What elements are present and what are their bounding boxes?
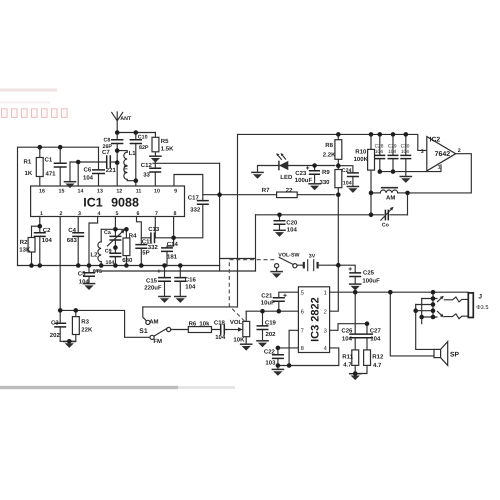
svg-text:10k: 10k (199, 321, 210, 328)
junction (173.6,237.8) (171, 236, 176, 241)
potentiometer VOL (227, 329, 238, 331)
wire C3/R3 bottom to ground (60, 340, 76, 342)
junction (367,323.7) (365, 321, 370, 326)
junction (407.5,192.9) (405, 191, 410, 196)
svg-text:104: 104 (375, 149, 383, 155)
junction (135.8,180.7) (134, 178, 139, 183)
wire pin4 (89, 217, 98, 267)
svg-text:104: 104 (185, 284, 196, 291)
wire speaker bottom feed (390, 292, 434, 356)
wire line B y=271 (96, 270, 256, 272)
wire pin4 to ground node (278, 348, 339, 366)
svg-text:C18: C18 (214, 320, 226, 327)
svg-text:C14: C14 (167, 241, 179, 248)
svg-text:S1: S1 (139, 328, 148, 335)
junction (393,171.6) (391, 169, 396, 174)
capacitor C29 (392, 134, 394, 171)
ground (251, 172, 264, 178)
capacitor C21 electrolytic (273, 298, 285, 302)
ground (149, 156, 162, 162)
junction (289.1,365.5) (287, 363, 292, 368)
svg-text:R5: R5 (161, 138, 169, 145)
junction (338.3,165.7) (336, 163, 341, 168)
wire IC2 output loop (408, 154, 472, 193)
wire pin1 output rail (330, 291, 469, 293)
svg-text:104: 104 (42, 237, 53, 244)
svg-text:IC1: IC1 (83, 196, 103, 210)
junction (219.6,194.7) (217, 192, 222, 197)
junction (180.3,265.5) (178, 263, 183, 268)
junction (405.8,134.4) (404, 132, 409, 137)
junction (371,134.4) (369, 132, 374, 137)
wire pin1 (32, 217, 40, 267)
wire v1 vertical x=219.6 (219, 163, 221, 271)
capacitor C11 (135, 245, 147, 249)
junction (60.2,147.2) (58, 145, 63, 150)
junction (39.8,265.5) (38, 263, 43, 268)
junction (371,192.9) (369, 191, 374, 196)
capacitor C14 (167, 238, 174, 266)
svg-text:7: 7 (155, 211, 158, 217)
wire LED row y=165.5 (258, 166, 335, 173)
svg-text:C7: C7 (102, 149, 110, 156)
junction (379.8,171.6) (378, 169, 383, 174)
wire main bus y=265.5 (18, 265, 220, 267)
svg-text:181: 181 (167, 254, 178, 261)
watermark squares (2, 109, 68, 118)
ground (273, 230, 286, 236)
svg-text:C10: C10 (138, 135, 148, 141)
svg-text:100uF: 100uF (362, 277, 380, 284)
capacitor C28 (379, 134, 381, 171)
svg-text:22: 22 (286, 187, 293, 194)
wire caps bottom rail to IC2 pin1 (380, 165, 441, 172)
svg-text:1.5K: 1.5K (161, 146, 174, 153)
svg-text:680: 680 (122, 257, 133, 264)
svg-text:22K: 22K (81, 327, 93, 334)
junction (115.4,229.3) (113, 227, 118, 232)
wire pin7 to C22 node (289, 330, 298, 365)
junction (355.2,292.2) (353, 290, 358, 295)
svg-text:104: 104 (388, 149, 396, 155)
svg-text:2.2K: 2.2K (323, 152, 336, 159)
wire pin6 to C11 (137, 217, 142, 245)
svg-text:Ca: Ca (104, 230, 111, 236)
svg-text:14: 14 (78, 189, 84, 195)
capacitor C25 electrolytic (349, 273, 361, 277)
ground (308, 184, 321, 190)
wire pin8 row (278, 347, 299, 349)
junction (338.3,194.7) (336, 192, 341, 197)
svg-text:13: 13 (97, 189, 103, 195)
junction (126.4,229.3) (124, 227, 129, 232)
ground (347, 187, 360, 193)
capacitor C15 electrolytic (164, 266, 166, 296)
junction (126.4,265.5) (124, 263, 129, 268)
phone jack J (468, 293, 473, 318)
svg-text:C27: C27 (370, 327, 382, 334)
svg-text:8: 8 (174, 211, 177, 217)
svg-text:C23: C23 (295, 170, 307, 177)
junction (277.9,347.9) (276, 346, 281, 351)
wire AM tank left/right verticals (371, 193, 408, 215)
capacitor C1 (59, 147, 61, 185)
junction (115.4,265.5) (113, 263, 118, 268)
svg-text:471: 471 (46, 171, 57, 178)
svg-text:R7: R7 (262, 187, 270, 194)
svg-text:26P: 26P (103, 144, 113, 150)
ground (256, 341, 269, 347)
svg-text:2: 2 (60, 211, 63, 217)
wire jack rows (416, 299, 437, 318)
junction (262.5,311.2) (260, 309, 265, 314)
svg-text:1: 1 (40, 211, 43, 217)
wire pin2 down (59, 217, 61, 311)
wire C17 bottom to pin8 node (174, 204, 203, 238)
svg-text:1: 1 (324, 291, 327, 297)
op-amp IC2 7642 (427, 137, 456, 171)
junction (31.5,265.5) (29, 263, 34, 268)
battery 3V (297, 264, 335, 266)
capacitor C16 (179, 266, 181, 296)
svg-text:C1: C1 (45, 157, 53, 164)
junction (390.3,292.2) (388, 290, 393, 295)
wire S1 common to R6 (171, 329, 189, 331)
svg-text:R11: R11 (342, 353, 353, 360)
junction (338.3,265.2) (336, 263, 341, 268)
variable capacitor Co (AM tuning) (385, 210, 388, 221)
svg-text:AM: AM (386, 194, 395, 201)
junction (433,317) (431, 315, 436, 320)
wire bracket vertical x=255.5 (255, 215, 257, 271)
svg-text:VOL: VOL (230, 319, 243, 326)
svg-text:100uF: 100uF (295, 177, 313, 184)
resistor R1 (39, 147, 41, 185)
svg-text:11: 11 (136, 189, 142, 195)
svg-text:103: 103 (265, 359, 276, 366)
svg-text:9: 9 (174, 189, 177, 195)
ground (174, 297, 187, 303)
ground (63, 342, 76, 348)
junction (101.2,265.5) (99, 263, 104, 268)
wire tank top rail y=229.3 (101, 228, 126, 230)
resistor R8 (337, 134, 339, 165)
svg-text:5: 5 (301, 291, 304, 297)
svg-text:104: 104 (287, 227, 298, 234)
svg-text:C30: C30 (401, 143, 410, 149)
svg-text:1: 1 (438, 165, 441, 171)
junction (39.8,147.2) (38, 145, 43, 150)
ground (349, 374, 362, 380)
junction (60.2,310.4) (58, 308, 63, 313)
capacitor C27 (366, 324, 368, 350)
wire pin3 to C27 (330, 324, 367, 331)
inductor AM antenna coil (371, 192, 380, 194)
wire AM contact drop (143, 307, 147, 321)
switch S1 (146, 320, 150, 324)
wire battery junction to C25 (335, 265, 355, 273)
svg-text:C22: C22 (264, 348, 276, 355)
svg-text:10: 10 (154, 189, 160, 195)
svg-text:C20: C20 (286, 219, 298, 226)
svg-text:IC2: IC2 (430, 136, 441, 143)
capacitor C12 (154, 163, 156, 185)
svg-text:FM: FM (153, 338, 162, 345)
svg-text:4: 4 (98, 211, 101, 217)
ground (240, 344, 253, 350)
svg-text:VOL-SW: VOL-SW (278, 253, 299, 259)
svg-text:IC3 2822: IC3 2822 (310, 297, 322, 342)
svg-text:C26: C26 (341, 327, 353, 334)
IC1 bottom pin numbers (40, 211, 177, 217)
ground (64, 182, 77, 188)
inductor L2 (100, 229, 102, 242)
svg-text:16: 16 (39, 189, 45, 195)
svg-text:3: 3 (324, 328, 327, 335)
svg-text:C16: C16 (185, 276, 197, 283)
jack switch arrows (437, 298, 442, 302)
resistor R9 (337, 166, 339, 195)
svg-text:C13: C13 (148, 226, 160, 233)
svg-text:R1: R1 (24, 159, 32, 166)
svg-text:1K: 1K (25, 170, 33, 177)
svg-text:104: 104 (370, 335, 381, 342)
svg-text:L2: L2 (91, 252, 99, 259)
svg-text:683: 683 (67, 237, 78, 244)
svg-text:2: 2 (324, 308, 327, 315)
svg-text:R9: R9 (322, 169, 330, 176)
wire top-left rail y=147.2 with left drop to bus (18, 147, 99, 265)
svg-text:3: 3 (421, 149, 424, 155)
svg-text:4.7: 4.7 (343, 361, 352, 368)
capacitor C9 (114, 248, 116, 266)
junction (393,134.4) (391, 132, 396, 137)
resistor R2 (28, 238, 35, 253)
LED (278, 161, 280, 171)
svg-text:R4: R4 (129, 233, 137, 240)
wire C12 top to v1 y=163.3 (153, 162, 220, 164)
svg-text:Co: Co (382, 223, 390, 229)
ground (272, 369, 285, 375)
svg-text:AM: AM (149, 319, 158, 326)
svg-text:C29: C29 (388, 143, 397, 149)
ground (158, 297, 171, 303)
wire FM audio: pin2 node to C3/R3 then right to FM contact (60, 310, 150, 337)
svg-text:R3: R3 (81, 319, 89, 326)
svg-text:8: 8 (301, 345, 304, 352)
svg-text:C6: C6 (84, 167, 92, 174)
svg-text:Φ3.5: Φ3.5 (476, 305, 488, 311)
junction (141.3,265.5) (139, 263, 144, 268)
svg-text:104: 104 (401, 149, 409, 155)
svg-text:5: 5 (116, 211, 119, 217)
capacitor C3 (59, 310, 61, 341)
capacitor C20 (279, 215, 281, 230)
junction (355.2,373.5) (353, 371, 358, 376)
svg-text:LED: LED (280, 174, 293, 181)
svg-text:202: 202 (266, 331, 277, 338)
jack contact springs (444, 297, 468, 302)
svg-text:104: 104 (83, 175, 94, 182)
capacitor C13 (141, 237, 173, 239)
resistor R3 (75, 310, 77, 341)
svg-text:C15: C15 (146, 277, 158, 284)
svg-text:C3: C3 (51, 320, 59, 327)
svg-text:3: 3 (78, 211, 81, 217)
svg-text:R8: R8 (325, 142, 333, 149)
svg-text:SP: SP (450, 352, 460, 359)
svg-text:10uF: 10uF (261, 300, 275, 307)
wire AM rail y=306.9 with riser x=237.5 (143, 134, 238, 307)
junction (115.4,247.6) (113, 245, 118, 250)
wire battery vertical to pin2 of IC3 (330, 195, 339, 312)
junction (338.3,134.4) (336, 132, 341, 137)
wire R7 rail y=194.7 (203, 194, 335, 196)
capacitor C7 (107, 155, 111, 168)
speaker SP (434, 349, 441, 357)
capacitor C24 (338, 166, 353, 187)
svg-text:7T5: 7T5 (124, 164, 130, 173)
junction (379.8,134.4) (378, 132, 383, 137)
svg-text:J: J (478, 294, 482, 301)
capacitor C23 electrolytic (314, 166, 316, 184)
svg-text:202: 202 (50, 332, 61, 339)
junction (433,298.5) (431, 296, 436, 301)
svg-text:C2: C2 (43, 227, 51, 234)
capacitor C17 (197, 201, 209, 205)
svg-text:330: 330 (320, 179, 331, 186)
junction (433,310.7) (431, 308, 436, 313)
svg-text:12: 12 (116, 189, 122, 195)
capacitor C19 (262, 311, 264, 340)
resistor R5 (154, 133, 156, 157)
wire pin5 to C21 (279, 292, 299, 298)
IC1 top pin numbers (39, 189, 177, 195)
svg-text:9088: 9088 (111, 196, 139, 210)
svg-text:C5: C5 (78, 271, 86, 278)
junction (75.8,310.4) (74, 308, 79, 313)
svg-text:R12: R12 (372, 353, 384, 360)
capacitor C10 (135, 133, 137, 186)
svg-text:L1: L1 (129, 150, 137, 157)
junction (421.7,317) (419, 315, 424, 320)
IC1 9088 (31, 186, 185, 217)
svg-text:104: 104 (106, 260, 115, 266)
ground (400, 177, 413, 183)
wire C20 / AM bottom rail y=214.8 (256, 214, 408, 216)
resistor R12 (364, 350, 371, 366)
wire antenna rail y=132.5 (117, 132, 155, 134)
capacitor C18 (212, 329, 228, 331)
switch VOL-SW (275, 264, 279, 268)
junction (433,304.5) (431, 302, 436, 307)
svg-text:7: 7 (301, 329, 304, 335)
junction (117.2,132.5) (115, 130, 120, 135)
capacitor C26 (354, 292, 356, 350)
junction (89,265.5) (87, 263, 92, 268)
antenna ANT (112, 112, 123, 133)
wire pin6 row to VOL top (246, 310, 298, 312)
junction (433,292.2) (431, 290, 436, 295)
svg-text:104: 104 (343, 181, 352, 187)
junction (117.2,150.6) (115, 148, 120, 153)
svg-text:R10: R10 (355, 148, 367, 155)
wire C8 column down to pin12 (116, 151, 118, 185)
junction (415.7,310.7) (413, 308, 418, 313)
wire pin7 (154, 217, 156, 238)
svg-text:6: 6 (301, 308, 304, 315)
junction (78.2,162) (76, 160, 81, 165)
svg-text:C25: C25 (363, 269, 375, 276)
svg-text:6: 6 (137, 211, 140, 217)
svg-text:104: 104 (215, 334, 226, 341)
svg-text:C12: C12 (141, 162, 153, 169)
wire pin9 to C17 top (174, 175, 203, 201)
svg-text:R6: R6 (189, 321, 197, 328)
svg-text:4.7: 4.7 (373, 362, 382, 369)
svg-text:13K: 13K (19, 247, 31, 254)
svg-text:10K: 10K (233, 337, 245, 344)
capacitor C6 (98, 147, 100, 185)
svg-text:104: 104 (342, 335, 353, 342)
capacitor C8 (116, 133, 118, 151)
wire bracket y=258.5 (220, 258, 256, 260)
junction (135.8,132.5) (134, 130, 139, 135)
resistor R4 (125, 229, 127, 266)
ground (270, 272, 283, 278)
inductor L1 (117, 151, 127, 153)
svg-text:3V: 3V (309, 253, 316, 259)
ground (349, 284, 362, 290)
svg-text:R2: R2 (20, 239, 28, 246)
svg-text:221: 221 (106, 167, 117, 174)
svg-text:C21: C21 (261, 293, 273, 300)
svg-text:ANT: ANT (120, 116, 132, 122)
svg-text:C9: C9 (105, 249, 112, 255)
svg-text:100K: 100K (354, 156, 369, 163)
svg-text:33: 33 (143, 171, 150, 178)
resistor R10 (370, 134, 372, 193)
wire speaker top feed (416, 305, 434, 350)
svg-text:2: 2 (458, 148, 461, 154)
resistor R11 (352, 350, 359, 366)
capacitor C22 (277, 348, 279, 366)
junction (117.2,162.6) (115, 160, 120, 165)
wire pin8 (173, 217, 175, 238)
dashed mechanical link VOL-SW to VOL (229, 260, 274, 321)
svg-text:C19: C19 (265, 319, 277, 326)
junction (78.2,265.5) (76, 263, 81, 268)
junction (314.6,165.5) (312, 163, 317, 168)
svg-text:C17: C17 (188, 194, 200, 201)
wire pin14 ground row y=162 (70, 162, 107, 185)
svg-text:C4: C4 (68, 227, 76, 234)
ground (83, 284, 96, 290)
wire top rail to IC2 input (238, 134, 427, 150)
variable capacitor Ca (FM tuning) (114, 229, 116, 247)
resistor R6 (188, 327, 211, 333)
capacitor C30 (405, 134, 407, 171)
svg-text:82P: 82P (139, 145, 149, 151)
svg-text:220uF: 220uF (144, 285, 162, 292)
junction (69.3,341.3) (67, 339, 72, 344)
svg-text:7642: 7642 (435, 151, 451, 158)
junction (278.8,311.2) (277, 309, 282, 314)
resistor R7 (277, 192, 298, 198)
IC3 2822 (298, 287, 329, 353)
svg-text:8T5: 8T5 (93, 269, 102, 275)
junction (164.5,265.5) (162, 263, 167, 268)
